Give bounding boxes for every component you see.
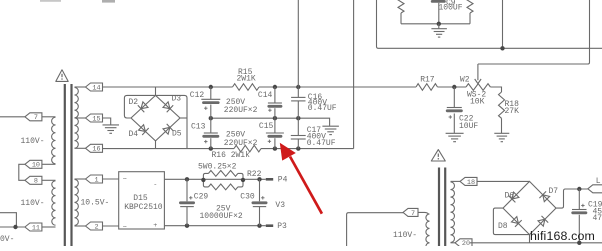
capacitor C9 (cut off): [431, 0, 446, 24]
resistor R18: [499, 92, 505, 118]
svg-text:110V-: 110V-: [393, 231, 417, 240]
wire W2 right end to R18: [490, 87, 501, 92]
wire D15 - rail: [164, 225, 265, 227]
junction pin11 feed: [13, 225, 17, 229]
wire winding to pin 10: [42, 163, 56, 165]
svg-text:10.5V-: 10.5V-: [81, 199, 110, 208]
junction C13 bottom: [209, 146, 213, 150]
svg-text:27K: 27K: [505, 107, 520, 116]
svg-text:C13: C13: [191, 123, 206, 132]
wire winding to pin 18: [451, 180, 461, 182]
svg-text:0V-: 0V-: [0, 235, 14, 244]
pin 8: [25, 176, 42, 185]
wire bridge2 right vertex to output node: [556, 189, 588, 208]
capacitor C29: [179, 179, 195, 225]
svg-text:20: 20: [462, 240, 470, 246]
wire drop to node (x502): [502, 0, 504, 48]
T1 primary winding lower 110V: [52, 181, 56, 225]
svg-text:220UF×2: 220UF×2: [224, 106, 258, 115]
capacitor C13: [202, 118, 219, 148]
svg-text:D3: D3: [172, 94, 182, 103]
diode D6: [509, 192, 519, 202]
wire wiper to upper-right: [478, 0, 590, 64]
svg-text:~: ~: [123, 176, 127, 184]
svg-text:C12: C12: [190, 91, 205, 100]
T1 primary winding upper 110V: [52, 117, 56, 164]
resistor (left bleeder, cut off): [398, 0, 404, 13]
pin 14: [86, 83, 103, 92]
diode D7: [539, 191, 549, 201]
warning triangle (right transformer): [431, 150, 445, 161]
wire winding to pin 14: [75, 86, 86, 88]
B+ top rail: [103, 86, 233, 88]
junction bridge2 output: [577, 187, 581, 191]
svg-text:R17: R17: [420, 75, 435, 84]
capacitor C17: [291, 118, 306, 148]
junction C29 top: [185, 177, 189, 181]
resistor (right bleeder, cut off): [467, 0, 473, 13]
T1 core: [64, 84, 66, 246]
wire winding to pin 16: [75, 147, 86, 149]
diode D2: [138, 102, 148, 112]
diode D3: [163, 102, 173, 112]
junction C19 bottom: [577, 241, 581, 245]
junction C16/C17: [296, 116, 300, 120]
resistor R16: [234, 145, 261, 152]
svg-text:110V-: 110V-: [21, 199, 45, 208]
svg-text:D6: D6: [505, 192, 515, 201]
wire winding tap to pin 15: [75, 117, 86, 119]
wire mains feed to pin 7: [0, 116, 25, 118]
ground (pin 15): [103, 125, 120, 133]
wire bottom rail (pin20 to C19): [470, 242, 602, 244]
wire bridge right vertex stub: [180, 117, 187, 119]
svg-text:1: 1: [94, 176, 98, 184]
svg-text:~: ~: [123, 223, 127, 231]
svg-text:8: 8: [34, 178, 38, 186]
ground (R18): [494, 133, 509, 141]
svg-text:C15: C15: [259, 122, 274, 131]
svg-text:D8: D8: [498, 222, 508, 231]
svg-text:0.47UF: 0.47UF: [307, 139, 336, 148]
junction C15 bottom: [273, 146, 277, 150]
wire long vertical from top to lower rail: [353, 0, 355, 149]
svg-text:D15: D15: [133, 194, 148, 203]
junction C29 bottom: [185, 224, 189, 228]
bridge2 diamond edges: [503, 181, 556, 234]
svg-text:W2: W2: [460, 75, 470, 84]
svg-text:16: 16: [92, 146, 100, 154]
wire D15 + rail: [164, 178, 265, 180]
mid rail (doubler midpoint): [211, 118, 330, 126]
pin 1: [86, 175, 103, 184]
bridge diamond edges: [131, 95, 180, 140]
bridge D2-D5 frame (left vertex wrap + right edge): [124, 95, 187, 148]
wire bridge2 left vertex wrap: [493, 208, 529, 235]
svg-text:+: +: [153, 222, 157, 230]
wire mains feed to pin 11: [0, 226, 25, 228]
T1 secondary winding 14-15-16: [75, 87, 79, 148]
svg-text:100UF: 100UF: [439, 4, 463, 13]
T1 secondary winding 1-2: [75, 179, 79, 225]
svg-text:470: 470: [593, 214, 602, 223]
pin 2: [86, 222, 103, 231]
T2 core: [438, 168, 440, 247]
wire winding to pin 11: [42, 226, 56, 228]
pin 15: [86, 114, 103, 123]
diode D9 (lower right, unlabeled): [538, 216, 548, 226]
wire pin7 to T2 primary: [418, 212, 429, 214]
junction C12/C13: [209, 116, 213, 120]
wire R18 to ground: [501, 118, 503, 133]
svg-text:0.47UF: 0.47UF: [308, 104, 337, 113]
svg-text:D2: D2: [129, 98, 139, 107]
svg-text:D7: D7: [549, 187, 559, 196]
svg-text:C30: C30: [240, 192, 255, 201]
capacitor C22: [446, 87, 463, 133]
junction parallel-R right: [241, 178, 245, 182]
svg-text:7: 7: [411, 210, 415, 218]
terminal P4: [266, 178, 273, 181]
svg-text:L: L: [596, 177, 601, 186]
svg-text:18: 18: [467, 179, 475, 187]
svg-text:14: 14: [92, 84, 100, 92]
svg-text:R16 2W1k: R16 2W1k: [212, 151, 251, 160]
resistor R17: [416, 84, 438, 91]
junction on 48-rail: [500, 46, 504, 50]
parallel resistor pair 5W0.25x2: [203, 171, 243, 190]
capacitor C19: [571, 189, 587, 243]
wire winding to pin 20: [451, 242, 456, 244]
wire pin15 to ground: [103, 118, 111, 125]
wire feed riser to pin 7 (T2): [347, 213, 403, 246]
pin 20: [455, 239, 472, 248]
svg-text:11: 11: [32, 224, 40, 232]
svg-text:C14: C14: [258, 91, 273, 100]
capacitor C12: [201, 87, 220, 118]
svg-text:V3: V3: [275, 201, 285, 210]
svg-text:P4: P4: [278, 175, 288, 184]
svg-text:10000UF×2: 10000UF×2: [200, 212, 243, 221]
wire pin18 to bridge top vertex: [477, 180, 530, 182]
junction C14/C15: [273, 116, 277, 120]
pin 7: [25, 113, 42, 122]
diode D8: [512, 217, 522, 227]
svg-text:D5: D5: [172, 129, 182, 138]
svg-text:KBPC2510: KBPC2510: [124, 203, 163, 212]
red annotation arrow pointing at C15: [280, 143, 322, 214]
ground (C9): [431, 29, 447, 37]
lower rail (bridge negative): [103, 148, 235, 150]
svg-text:10: 10: [32, 162, 40, 170]
junction C14 top: [273, 85, 277, 89]
junction C22 node: [452, 85, 456, 89]
wire bridge bottom stub: [155, 141, 157, 149]
svg-text:15: 15: [92, 115, 100, 123]
warning triangle (left transformer): [56, 70, 68, 82]
junction C30 bottom: [257, 224, 261, 228]
stray scan dots top: [102, 0, 115, 3]
svg-text:110V-: 110V-: [21, 137, 45, 146]
wire vertical feed at x300 from top: [297, 0, 299, 87]
wire alternate mains tap (edge): [0, 213, 16, 227]
capacitor C30: [252, 179, 268, 225]
ground (C22): [446, 133, 464, 141]
resistor R15: [233, 84, 260, 91]
svg-text:2: 2: [94, 223, 98, 231]
capacitor C16: [291, 87, 305, 118]
svg-text:5W0.25×2: 5W0.25×2: [198, 162, 237, 171]
wire winding to pin 2: [75, 225, 86, 227]
wire pin1 to D15: [103, 178, 119, 180]
capacitor C15: [266, 118, 284, 148]
junction C16 top: [296, 85, 300, 89]
svg-text:10UF: 10UF: [459, 122, 478, 131]
wire winding to pin 1: [75, 178, 86, 180]
svg-text:-: -: [153, 181, 157, 189]
diode D5: [163, 124, 173, 134]
pin L (output tag, cut off): [588, 185, 602, 193]
wire bridge2 bottom stub: [529, 235, 531, 243]
potentiometer W2 wiper arrow: [475, 64, 481, 84]
ground (mid rail): [322, 126, 339, 134]
svg-text:C29: C29: [194, 192, 209, 201]
potentiometer W2 track: [466, 84, 490, 91]
junction C17 bottom: [296, 146, 300, 150]
svg-text:7: 7: [34, 114, 38, 122]
junction parallel-R left: [201, 178, 205, 182]
pin 18: [460, 177, 477, 186]
pin 11: [25, 223, 42, 232]
T2 primary winding: [426, 214, 430, 250]
wire pin8 to primary winding: [42, 179, 56, 181]
diode D4: [139, 125, 149, 135]
terminal P3: [266, 224, 273, 227]
pin 7 (T2): [403, 208, 418, 217]
svg-text:2W1K: 2W1K: [237, 75, 256, 84]
svg-text:P3: P3: [277, 222, 287, 231]
stray scan smudge top-left: [40, 0, 61, 2]
wire bridge top stub: [155, 87, 157, 95]
wire C9 to ground: [438, 24, 440, 29]
T2 secondary winding: [451, 182, 455, 242]
wire R17 to W2: [438, 86, 467, 88]
svg-text:R22: R22: [247, 170, 262, 179]
pin 10: [25, 160, 42, 169]
wire bleeder bottom bar: [401, 23, 470, 25]
svg-text:10K: 10K: [470, 97, 485, 106]
svg-text:D4: D4: [129, 130, 139, 139]
svg-text:hifi168.com: hifi168.com: [530, 229, 595, 243]
wire outer loop left vertical: [377, 0, 602, 48]
bridge rectifier D15 body: [119, 172, 165, 229]
svg-text:220UF×2: 220UF×2: [224, 139, 258, 148]
wire pin2 to D15: [103, 225, 119, 227]
junction C9 bottom: [437, 22, 441, 26]
capacitor C14: [267, 87, 282, 118]
junction C12 top: [209, 85, 213, 89]
junction C30 top: [257, 177, 261, 181]
wire bracket joining pin 10 and pin 8: [19, 164, 25, 180]
wire pin7 to primary winding: [42, 116, 56, 118]
pin 16: [86, 144, 103, 153]
